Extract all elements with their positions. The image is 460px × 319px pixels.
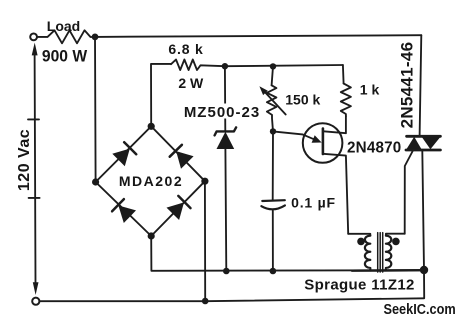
wire MT1 junction to bottom rail bbox=[423, 270, 425, 298]
transformer T1 left phasing dot bbox=[357, 238, 365, 246]
capacitor C1 top plate bbox=[262, 199, 285, 202]
capacitor C1 bottom lead bbox=[272, 210, 274, 271]
zener D1 cathode bar bbox=[215, 127, 237, 135]
bridge diode bottom-left triangle bbox=[118, 206, 136, 224]
triac Q2 bottom bar bbox=[406, 149, 440, 152]
resistor R2 1k zigzag bbox=[341, 84, 351, 117]
transistor Q1 base bar bbox=[322, 129, 325, 154]
triac Q2 left triangle bbox=[406, 137, 421, 149]
bridge MDA202 edge top-right bbox=[151, 126, 205, 181]
triac Q2 right triangle bbox=[422, 137, 440, 149]
resistor R2 1k top lead bbox=[342, 65, 345, 84]
node bottom rail junction bbox=[202, 298, 209, 305]
transformer T1 right winding top lead bbox=[386, 234, 405, 236]
node bridge top vertex bbox=[148, 123, 155, 130]
bridge MDA202 edge top-left bbox=[96, 126, 152, 182]
svg-text:Sprague 11Z12: Sprague 11Z12 bbox=[304, 277, 414, 294]
transistor Q1 emitter arrowhead bbox=[312, 135, 322, 143]
potentiometer 150k lead bbox=[272, 66, 273, 85]
node junction top-left bbox=[92, 34, 99, 41]
svg-text:1 k: 1 k bbox=[360, 82, 380, 98]
wire 1k bottom to UJT base2 bbox=[324, 116, 346, 133]
triac Q2 top bar bbox=[407, 135, 441, 138]
bridge diode bottom-left bar bbox=[112, 199, 124, 211]
bridge diode top-right bar bbox=[170, 145, 182, 157]
120 Vac source arrow up bbox=[32, 43, 38, 56]
potentiometer 150k arrow shaft bbox=[263, 90, 286, 115]
svg-text:SeekIC.com: SeekIC.com bbox=[383, 301, 455, 317]
tick lower on AC column bbox=[29, 197, 40, 199]
svg-text:150 k: 150 k bbox=[285, 92, 320, 108]
svg-text:2 W: 2 W bbox=[178, 75, 204, 91]
triac Q2 gate lead bbox=[405, 151, 413, 234]
svg-text:0.1 µF: 0.1 µF bbox=[291, 195, 336, 211]
bridge diode bottom-right triangle bbox=[167, 202, 185, 220]
zener D1 anode triangle bbox=[217, 132, 235, 149]
resistor Load 900 W bbox=[37, 30, 95, 43]
capacitor C1 bottom plate bbox=[261, 205, 285, 209]
terminal top-left (AC line) bbox=[30, 34, 37, 41]
triac Q2 MT2 lead bbox=[420, 35, 422, 136]
bridge diode top-right triangle bbox=[176, 151, 194, 169]
svg-text:900 W: 900 W bbox=[42, 47, 88, 66]
svg-text:2N4870: 2N4870 bbox=[347, 139, 401, 156]
node cap on rail bbox=[270, 268, 277, 275]
wire junction to bridge left vertex bbox=[94, 37, 97, 182]
wire bottom rail bbox=[39, 298, 424, 301]
transformer T1 left winding top lead bbox=[348, 234, 370, 236]
wire 6.8k row to 1k corner bbox=[225, 65, 343, 66]
transformer T1 right winding bbox=[386, 236, 391, 271]
svg-text:120 Vac: 120 Vac bbox=[16, 129, 33, 191]
transformer T1 left winding bbox=[365, 236, 370, 271]
wire bridge right vertex to bottom rail bbox=[204, 181, 206, 301]
svg-text:6.8 k: 6.8 k bbox=[168, 41, 203, 57]
potentiometer 150k zigzag bbox=[267, 85, 277, 131]
tick upper on AC column bbox=[28, 118, 39, 120]
120 Vac source arrow down bbox=[33, 282, 39, 295]
potentiometer 150k arrowhead bbox=[259, 86, 267, 95]
zener D1 MZ500-23 lead from node bbox=[224, 66, 226, 131]
wire bridge bottom vertex to DC- rail bbox=[151, 236, 424, 271]
node pot top bbox=[270, 63, 276, 69]
capacitor C1 0.1uF top lead bbox=[272, 131, 274, 200]
svg-text:Load: Load bbox=[47, 18, 80, 34]
transistor Q1 emitter line bbox=[303, 134, 316, 140]
svg-text:2N5441-46: 2N5441-46 bbox=[398, 42, 417, 129]
bridge MDA202 edge bottom-right bbox=[151, 181, 205, 236]
wire DC- rail thick under transformer bbox=[352, 269, 424, 272]
node 6.8k right / zener top bbox=[222, 63, 228, 69]
wire UJT base1 down to transformer bbox=[323, 154, 348, 234]
bridge MDA202 edge bottom-left bbox=[96, 182, 152, 236]
svg-text:MZ500-23: MZ500-23 bbox=[184, 104, 260, 121]
wire bridge top vertex up and right to 6.8k bbox=[151, 64, 171, 126]
svg-text:MDA202: MDA202 bbox=[119, 173, 183, 189]
wire top rail to triac MT2 bbox=[95, 35, 421, 37]
bridge diode bottom-right bar bbox=[178, 196, 190, 208]
node bridge bottom vertex bbox=[148, 232, 155, 239]
wire emitter from pot node to UJT bbox=[273, 131, 303, 134]
node zener on rail bbox=[223, 268, 230, 275]
triac Q2 MT1 lead bbox=[422, 150, 424, 270]
transistor Q1 2N4870 circle bbox=[303, 123, 343, 163]
node bridge right vertex bbox=[201, 178, 208, 185]
bridge diode top-left bar bbox=[124, 142, 136, 154]
transformer T1 core lines bbox=[378, 233, 383, 272]
wire zener to DC- rail bbox=[224, 149, 227, 271]
terminal bottom-left (AC neutral) bbox=[32, 298, 39, 305]
resistor R 6.8k 2W bbox=[171, 60, 225, 71]
bridge diode top-left triangle bbox=[112, 149, 130, 167]
node MT1 rail junction bbox=[420, 266, 428, 274]
node pot bottom / emitter / cap bbox=[270, 128, 276, 134]
transformer T1 right phasing dot bbox=[392, 238, 400, 246]
label MZ500-23 background bbox=[183, 104, 261, 119]
node bridge left vertex bbox=[92, 178, 99, 185]
wire left AC column bbox=[34, 53, 37, 284]
